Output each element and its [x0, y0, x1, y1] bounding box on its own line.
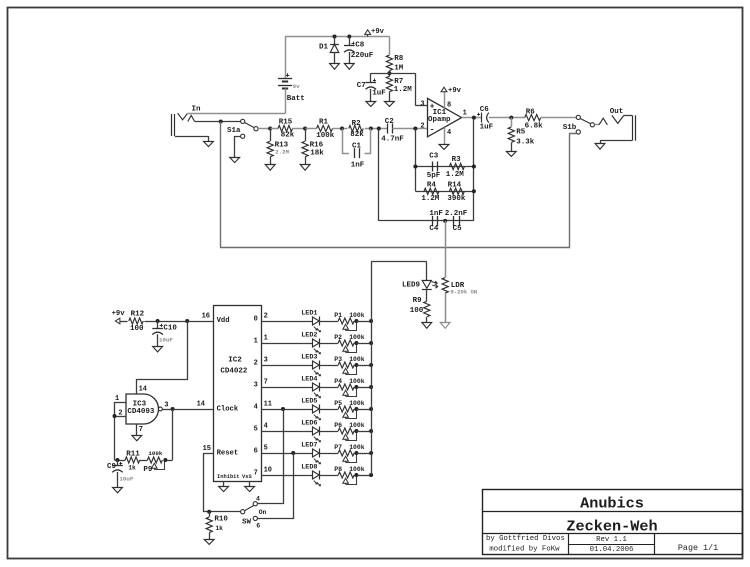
svg-text:100: 100 — [130, 325, 144, 333]
svg-text:Clock: Clock — [217, 405, 239, 413]
svg-text:C3: C3 — [429, 153, 439, 161]
svg-text:R16: R16 — [310, 142, 324, 150]
svg-text:C9: C9 — [107, 463, 117, 471]
svg-text:LED7: LED7 — [301, 442, 317, 450]
svg-text:R3: R3 — [452, 156, 462, 164]
svg-text:LED5: LED5 — [301, 398, 317, 406]
svg-text:+9v: +9v — [371, 28, 385, 36]
svg-text:LED1: LED1 — [301, 310, 317, 318]
svg-text:-: - — [430, 126, 435, 134]
svg-text:220uF: 220uF — [351, 52, 374, 60]
svg-text:9-20k ON: 9-20k ON — [450, 288, 477, 295]
svg-text:5: 5 — [264, 445, 268, 453]
svg-text:Rev 1.1: Rev 1.1 — [596, 536, 627, 544]
svg-text:1.2M: 1.2M — [421, 195, 440, 203]
svg-text:SW: SW — [242, 518, 252, 526]
svg-text:390k: 390k — [447, 195, 466, 203]
svg-text:7: 7 — [139, 426, 143, 434]
svg-text:Opamp: Opamp — [428, 116, 451, 124]
svg-text:by Gottfried Divos: by Gottfried Divos — [486, 535, 565, 543]
svg-text:3: 3 — [420, 100, 424, 108]
svg-text:R14: R14 — [448, 181, 462, 189]
svg-text:R2: R2 — [352, 120, 362, 128]
svg-text:R5: R5 — [516, 129, 526, 137]
svg-text:7: 7 — [264, 379, 268, 387]
svg-text:1: 1 — [254, 337, 258, 345]
svg-text:100k: 100k — [349, 400, 365, 407]
svg-text:R10: R10 — [214, 516, 228, 524]
svg-text:3: 3 — [254, 381, 258, 389]
svg-text:CD4093: CD4093 — [127, 408, 155, 416]
svg-text:2.2nF: 2.2nF — [445, 210, 468, 218]
svg-text:9v: 9v — [293, 83, 300, 90]
svg-text:R9: R9 — [413, 297, 423, 305]
svg-text:1.2M: 1.2M — [446, 171, 465, 179]
svg-text:1k: 1k — [215, 525, 223, 532]
svg-text:S1b: S1b — [563, 124, 577, 132]
svg-text:4.7nF: 4.7nF — [381, 135, 404, 143]
svg-text:1uF: 1uF — [372, 90, 386, 98]
svg-text:LED4: LED4 — [301, 376, 317, 384]
svg-text:1uF: 1uF — [480, 124, 494, 132]
svg-text:16: 16 — [202, 313, 210, 321]
svg-text:100k: 100k — [349, 356, 365, 363]
svg-text:10: 10 — [264, 467, 272, 475]
svg-text:C8: C8 — [355, 42, 365, 50]
svg-text:CD4022: CD4022 — [220, 368, 248, 376]
svg-text:10uF: 10uF — [159, 337, 173, 344]
svg-text:100k: 100k — [349, 334, 365, 341]
svg-text:18k: 18k — [310, 149, 324, 157]
svg-text:0: 0 — [254, 315, 258, 323]
svg-text:100k: 100k — [349, 312, 365, 319]
svg-text:LED6: LED6 — [301, 420, 317, 428]
svg-text:100: 100 — [410, 307, 424, 315]
svg-text:14: 14 — [197, 401, 205, 409]
svg-text:P1: P1 — [334, 312, 342, 319]
svg-text:R1: R1 — [319, 118, 329, 126]
svg-text:C10: C10 — [163, 325, 177, 333]
svg-text:5: 5 — [254, 425, 258, 433]
svg-text:7: 7 — [254, 469, 258, 477]
svg-text:VsS: VsS — [242, 474, 252, 480]
svg-text:S1a: S1a — [227, 127, 241, 135]
svg-text:1: 1 — [463, 110, 467, 118]
svg-text:1M: 1M — [394, 64, 404, 72]
svg-text:P6: P6 — [334, 422, 342, 429]
svg-text:Batt: Batt — [287, 95, 305, 103]
svg-text:LED8: LED8 — [301, 464, 317, 472]
svg-text:1.2M: 1.2M — [394, 86, 413, 94]
svg-text:5pF: 5pF — [427, 172, 441, 180]
svg-text:100k: 100k — [349, 378, 365, 385]
svg-text:P2: P2 — [334, 334, 342, 341]
svg-text:Reset: Reset — [217, 449, 239, 457]
svg-text:1: 1 — [115, 395, 119, 403]
svg-text:On: On — [259, 509, 267, 516]
svg-text:4: 4 — [254, 403, 258, 411]
svg-text:1nF: 1nF — [351, 161, 365, 169]
svg-text:Anubics: Anubics — [580, 495, 644, 513]
svg-text:100k: 100k — [349, 444, 365, 451]
svg-text:P8: P8 — [334, 466, 342, 473]
svg-text:100k: 100k — [316, 132, 335, 140]
svg-text:R8: R8 — [394, 55, 404, 63]
svg-text:Out: Out — [610, 108, 624, 116]
svg-text:01.04.2006: 01.04.2006 — [590, 546, 634, 554]
svg-text:+9v: +9v — [448, 87, 462, 95]
svg-text:modified by FoKw: modified by FoKw — [489, 546, 560, 554]
svg-text:11: 11 — [264, 401, 272, 409]
svg-text:100k: 100k — [349, 422, 365, 429]
svg-text:Zecken-Weh: Zecken-Weh — [566, 518, 657, 536]
svg-text:Vdd: Vdd — [217, 317, 230, 325]
svg-text:4: 4 — [264, 423, 268, 431]
svg-text:C7: C7 — [357, 82, 366, 90]
svg-text:4: 4 — [256, 496, 260, 503]
svg-text:R11: R11 — [126, 451, 140, 459]
svg-text:Page 1/1: Page 1/1 — [678, 543, 718, 553]
svg-text:LED2: LED2 — [301, 332, 317, 340]
svg-text:2: 2 — [420, 123, 424, 131]
svg-text:14: 14 — [139, 386, 147, 394]
svg-text:10uF: 10uF — [119, 476, 133, 483]
svg-text:C5: C5 — [453, 225, 463, 233]
svg-text:+9v: +9v — [112, 310, 126, 318]
svg-text:LED9: LED9 — [402, 281, 421, 289]
svg-text:In: In — [192, 106, 202, 114]
svg-text:82k: 82k — [281, 132, 295, 140]
svg-text:2.2M: 2.2M — [275, 149, 289, 156]
svg-text:3: 3 — [164, 401, 168, 409]
svg-text:C1: C1 — [352, 142, 362, 150]
svg-text:P3: P3 — [334, 356, 342, 363]
svg-text:2: 2 — [254, 359, 258, 367]
svg-text:2: 2 — [264, 313, 268, 321]
svg-text:6: 6 — [256, 523, 260, 530]
svg-text:P7: P7 — [334, 444, 342, 451]
svg-text:6.8k: 6.8k — [525, 123, 544, 131]
svg-text:C2: C2 — [385, 118, 395, 126]
svg-text:100k: 100k — [148, 450, 162, 457]
svg-text:P9: P9 — [143, 466, 153, 474]
svg-text:6: 6 — [254, 447, 258, 455]
svg-text:82k: 82k — [350, 131, 364, 139]
svg-text:8: 8 — [447, 102, 451, 110]
svg-text:D1: D1 — [319, 44, 329, 52]
svg-text:1: 1 — [264, 335, 268, 343]
svg-text:1nF: 1nF — [429, 210, 443, 218]
svg-text:Inhibit: Inhibit — [217, 474, 240, 480]
svg-text:LED3: LED3 — [301, 354, 317, 362]
svg-text:R4: R4 — [427, 181, 437, 189]
svg-text:IC2: IC2 — [228, 356, 242, 364]
svg-text:R15: R15 — [279, 118, 293, 126]
svg-text:P4: P4 — [334, 378, 342, 385]
svg-text:1k: 1k — [128, 465, 136, 472]
svg-text:C6: C6 — [480, 106, 490, 114]
svg-text:C4: C4 — [429, 225, 439, 233]
svg-text:100k: 100k — [349, 466, 365, 473]
svg-text:4: 4 — [447, 129, 451, 137]
svg-text:P5: P5 — [334, 400, 342, 407]
svg-text:15: 15 — [203, 445, 211, 453]
svg-text:R12: R12 — [131, 310, 145, 318]
svg-text:3: 3 — [264, 357, 268, 365]
svg-text:3.3k: 3.3k — [516, 139, 535, 147]
svg-text:2: 2 — [118, 409, 122, 417]
svg-text:R6: R6 — [526, 109, 536, 117]
svg-text:R7: R7 — [394, 78, 403, 86]
